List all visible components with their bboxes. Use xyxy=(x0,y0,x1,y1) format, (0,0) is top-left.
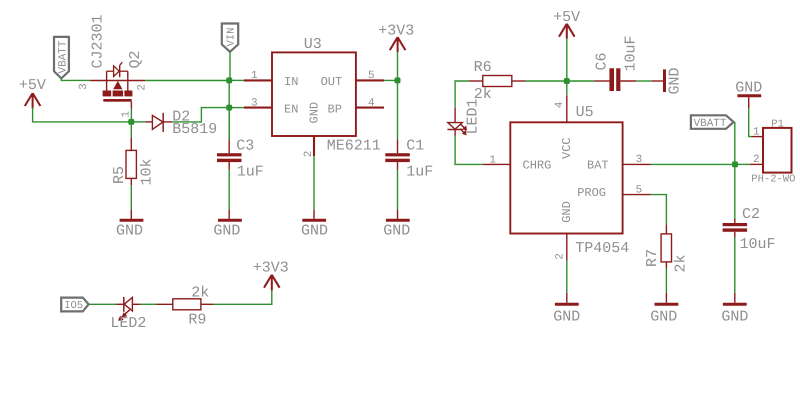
wire LED1 to U5 pin1 xyxy=(455,136,483,165)
pin 5 PROG xyxy=(623,194,651,196)
junction OUT node xyxy=(395,77,401,83)
svg-text:2: 2 xyxy=(137,84,149,91)
svg-text:TP4054: TP4054 xyxy=(575,240,629,257)
svg-text:R6: R6 xyxy=(474,59,492,76)
svg-text:4: 4 xyxy=(554,101,566,108)
svg-text:+5V: +5V xyxy=(553,9,580,26)
svg-text:R7: R7 xyxy=(644,249,661,267)
svg-text:BAT: BAT xyxy=(587,158,609,172)
emission arrows xyxy=(124,310,130,315)
pin 3 stub xyxy=(90,80,107,82)
wire junction to C6 xyxy=(567,80,594,82)
pin 3 EN xyxy=(244,107,272,109)
svg-text:2: 2 xyxy=(303,151,315,158)
svg-text:LED1: LED1 xyxy=(465,98,482,134)
svg-text:1uF: 1uF xyxy=(406,164,433,181)
connector P1 PH-2-WO xyxy=(750,119,796,186)
capacitor C3 1uF xyxy=(217,137,264,180)
pin 1 stub (gate) xyxy=(130,102,132,109)
wire junction to P1 pin2 xyxy=(735,163,750,165)
flag VBATT (right) xyxy=(691,115,734,130)
svg-text:VCC: VCC xyxy=(560,137,574,159)
capacitor C6 10uF xyxy=(594,35,640,91)
gate bar xyxy=(103,99,131,102)
wire C6 to GND xyxy=(636,80,651,82)
svg-text:GND: GND xyxy=(721,308,748,325)
wire R6 left corner down to LED1 xyxy=(455,81,469,108)
svg-text:GND: GND xyxy=(560,201,574,223)
svg-text:C1: C1 xyxy=(406,137,424,154)
pin 4 BP xyxy=(356,107,384,109)
svg-text:3: 3 xyxy=(251,97,258,109)
ground below C1 xyxy=(383,210,410,240)
ground right of C6 (rotated) xyxy=(651,67,683,94)
svg-text:P1: P1 xyxy=(771,119,784,131)
supply +3V3 symbol (top) xyxy=(378,22,414,52)
svg-text:LED2: LED2 xyxy=(110,315,146,332)
LED LED2 xyxy=(110,297,146,332)
wire +5V net: vertical and horizontal to junction xyxy=(33,108,132,122)
wire LED2 to R9 xyxy=(141,303,157,305)
resistor R9 xyxy=(157,285,214,329)
left vertical xyxy=(106,71,108,91)
wire OUT node down to C1 xyxy=(397,80,399,139)
svg-text:IN: IN xyxy=(284,75,298,89)
junction +5V node xyxy=(564,78,570,84)
LED LED1 xyxy=(447,98,481,135)
wire C3 to GND xyxy=(228,170,230,210)
wire IO5 to LED2 xyxy=(89,303,117,305)
svg-text:PROG: PROG xyxy=(577,186,606,200)
supply +3V3 symbol (bottom) xyxy=(253,260,289,291)
ground below R7 xyxy=(650,293,678,325)
emission arrows xyxy=(460,124,465,129)
pin 4 VCC xyxy=(566,95,568,122)
ground below U5 xyxy=(553,293,580,325)
diode D2 B5819 xyxy=(145,108,217,138)
svg-text:2k: 2k xyxy=(673,254,690,272)
resistor R7 xyxy=(644,224,690,272)
wire VBATT down through junction to C2 xyxy=(734,122,736,219)
pin 2 GND xyxy=(566,234,568,261)
svg-text:B5819: B5819 xyxy=(172,121,217,138)
svg-text:R9: R9 xyxy=(188,311,206,328)
pin 1 CHRG xyxy=(483,163,510,165)
right vertical xyxy=(127,71,129,91)
svg-text:Q2: Q2 xyxy=(127,50,144,68)
capacitor C2 10uF xyxy=(723,206,776,253)
svg-text:GND: GND xyxy=(735,80,762,97)
svg-text:C3: C3 xyxy=(236,137,254,154)
svg-text:5: 5 xyxy=(368,70,375,82)
pin 2 xyxy=(750,163,763,165)
pin 5 OUT xyxy=(356,79,384,81)
wire VIN vertical xyxy=(228,52,231,140)
svg-text:10uF: 10uF xyxy=(740,236,776,253)
pin 2 GND xyxy=(313,136,315,156)
svg-text:GND: GND xyxy=(650,308,677,325)
svg-text:2: 2 xyxy=(554,253,566,260)
wire +3V3 to OUT xyxy=(384,52,398,80)
flag VIN xyxy=(222,24,238,52)
supply +5V symbol xyxy=(19,77,46,108)
wire C2 to GND xyxy=(734,238,736,294)
ground below U3 xyxy=(301,210,328,240)
junction VIN / pin1 xyxy=(226,77,232,83)
svg-text:VIN: VIN xyxy=(226,28,238,47)
svg-text:1: 1 xyxy=(251,70,258,82)
wire +5V down to junction xyxy=(566,39,568,81)
substrate arrow xyxy=(113,81,122,89)
wire R5 to GND xyxy=(130,185,132,210)
svg-text:ME6211: ME6211 xyxy=(327,138,381,155)
wire to U3 pin1 xyxy=(229,79,244,81)
wire R6 to junction xyxy=(526,80,567,82)
svg-text:GND: GND xyxy=(308,102,322,124)
wire U5 pin2 to GND xyxy=(566,261,568,293)
svg-text:2k: 2k xyxy=(191,285,209,302)
wire BAT to junction xyxy=(651,163,735,165)
svg-text:BP: BP xyxy=(328,102,342,116)
source-drain channel line xyxy=(107,80,146,82)
wire to U3 pin3 xyxy=(229,107,244,109)
svg-text:GND: GND xyxy=(213,222,240,239)
wire Q2 drain to VIN node xyxy=(145,80,229,82)
svg-text:PH-2-WO: PH-2-WO xyxy=(751,173,795,185)
svg-text:1uF: 1uF xyxy=(237,164,264,181)
wire VBATT flag to Q2 pin3 xyxy=(61,78,90,80)
supply +5V symbol (right) xyxy=(553,9,580,39)
pin 1 xyxy=(752,136,764,138)
svg-text:1: 1 xyxy=(753,127,760,139)
wire U3 pin2 to GND xyxy=(313,156,315,210)
svg-text:GND: GND xyxy=(116,222,143,239)
resistor R6 xyxy=(469,59,526,103)
op-amp U3 ME6211 regulator xyxy=(244,36,384,157)
svg-text:GND: GND xyxy=(667,67,684,94)
svg-text:GND: GND xyxy=(383,222,410,239)
junction EN node xyxy=(226,105,232,111)
svg-text:U5: U5 xyxy=(576,104,594,121)
wire VIN node down to C3 xyxy=(228,108,230,140)
ground above P1 (mirrored) xyxy=(735,80,762,109)
svg-text:1: 1 xyxy=(489,154,496,166)
junction node gate/R5/D2 xyxy=(128,119,134,125)
wire C1 to GND xyxy=(397,170,399,210)
wire Q2 gate down to node xyxy=(130,108,132,122)
svg-text:5: 5 xyxy=(636,184,643,196)
capacitor C1 1uF xyxy=(385,137,433,180)
pin 3 BAT xyxy=(623,163,651,165)
svg-text:CHRG: CHRG xyxy=(523,158,552,172)
svg-text:GND: GND xyxy=(553,308,580,325)
svg-text:3: 3 xyxy=(78,83,90,90)
wire node to D2 xyxy=(131,121,145,123)
svg-text:VBATT: VBATT xyxy=(58,40,70,73)
svg-text:10uF: 10uF xyxy=(623,35,640,71)
svg-text:C6: C6 xyxy=(594,52,611,70)
svg-text:3: 3 xyxy=(636,154,643,166)
wire junction down to U5 pin4 xyxy=(566,81,568,95)
svg-text:IO5: IO5 xyxy=(64,300,83,312)
svg-text:10k: 10k xyxy=(139,158,156,185)
svg-text:+5V: +5V xyxy=(19,77,46,94)
svg-text:+3V3: +3V3 xyxy=(253,260,289,277)
svg-text:CJ2301: CJ2301 xyxy=(90,14,107,68)
wire D2 cathode to EN node xyxy=(172,108,229,122)
svg-text:+3V3: +3V3 xyxy=(378,22,414,39)
junction BAT node xyxy=(732,161,738,167)
ground below R5 xyxy=(116,210,143,240)
IC U5 TP4054 xyxy=(483,95,651,260)
svg-text:EN: EN xyxy=(284,102,298,116)
flag VBATT (left) xyxy=(54,37,70,79)
body diode branch xyxy=(107,70,114,72)
svg-text:OUT: OUT xyxy=(321,75,343,89)
wire R7 to GND xyxy=(665,269,667,294)
ground below C3 xyxy=(213,210,241,240)
svg-text:4: 4 xyxy=(368,97,375,109)
transistor Q2 CJ2301 (P-MOSFET) xyxy=(78,14,149,117)
svg-text:GND: GND xyxy=(301,222,328,239)
channel bars xyxy=(103,91,112,97)
svg-text:U3: U3 xyxy=(304,36,322,53)
svg-text:VBATT: VBATT xyxy=(694,118,727,130)
wire R9 to +3V3 xyxy=(213,290,271,304)
resistor R5 xyxy=(111,122,156,186)
svg-text:R5: R5 xyxy=(111,166,128,184)
ground below C2 xyxy=(721,293,748,325)
flag IO5 xyxy=(61,298,88,312)
wire GND to P1 pin1 xyxy=(749,108,752,136)
pin 1 IN xyxy=(244,79,272,81)
svg-text:2: 2 xyxy=(753,154,760,166)
svg-text:C2: C2 xyxy=(742,206,760,223)
wire PROG to R7 xyxy=(651,195,667,225)
